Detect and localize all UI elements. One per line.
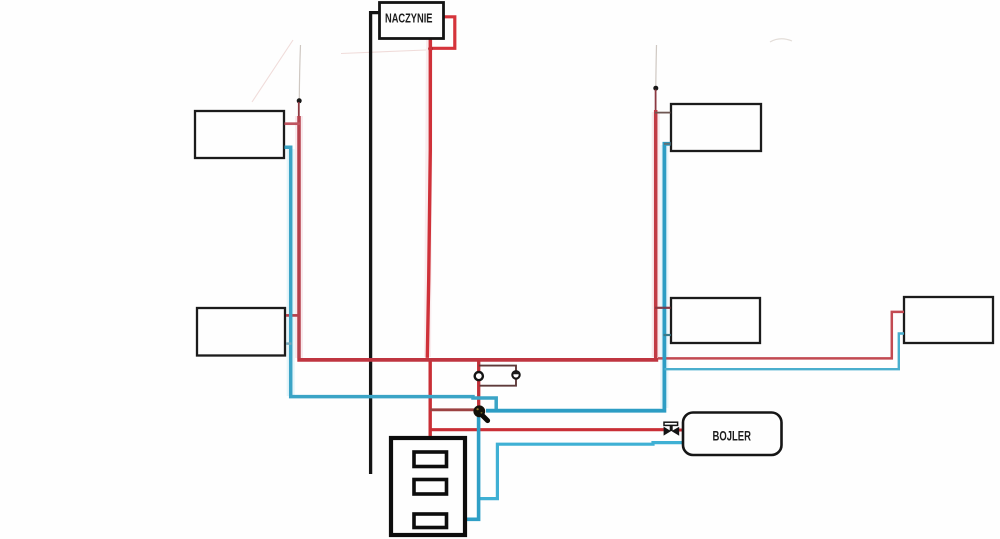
valve circle on bypass: [512, 371, 519, 378]
furnace door middle: [414, 480, 447, 495]
blue stub to right-bottom radiator: [664, 334, 671, 336]
pump speckles: [477, 408, 479, 410]
junction blob naczynie loop: [428, 47, 433, 52]
faint pencil line above right vent dot: [655, 45, 658, 87]
pump body: [473, 405, 485, 417]
gray stub nub top-right radiator: [664, 143, 671, 145]
red riser left radiators: [297, 116, 301, 358]
faint pink ghost diagonal left: [252, 40, 293, 102]
bottom red supply to boiler valve: [430, 428, 664, 431]
halo glow blue riser right: [660, 145, 668, 408]
faint pencil line above left vent dot: [299, 45, 300, 99]
radiator right-bottom: [671, 298, 760, 343]
blue return left riser and run to pump: [285, 147, 497, 411]
valve circle on feed: [475, 372, 483, 380]
bypass valve dark cap: [512, 371, 519, 374]
crossing blend red-over-blue stub: [663, 307, 667, 309]
blue pump outlet down to furnace: [466, 414, 479, 519]
red stub valve to boiler: [679, 429, 683, 432]
radiator left-top: [195, 111, 284, 158]
blue stub to left-bottom radiator: [286, 342, 292, 345]
vent dot left riser: [297, 98, 302, 103]
red loop from NACZYNIE right side: [430, 17, 455, 49]
expansion vessel NACZYNIE: [380, 3, 444, 39]
red stub to left-bottom radiator: [286, 314, 300, 317]
halo glow red riser right: [652, 112, 660, 357]
red stub to right-top radiator: [655, 112, 671, 114]
faint pencil smudge top right: [770, 39, 792, 42]
radiator right-top: [671, 104, 761, 151]
red feed down to pump: [477, 360, 480, 406]
thin red feed to far-right radiator: [658, 312, 904, 359]
red stub junction to pump: [430, 408, 474, 411]
radiator far-right: [904, 297, 993, 343]
halo glow naczynie drop: [428, 40, 430, 357]
pump tail: [483, 416, 488, 421]
furnace door top: [414, 452, 447, 467]
svg-text:BOJLER: BOJLER: [713, 429, 752, 444]
blue return right riser to pump: [486, 144, 671, 411]
bypass loop thin maroon: [479, 366, 516, 386]
red stub to left-top radiator: [285, 122, 301, 125]
red riser right radiators: [654, 110, 658, 358]
radiator left-bottom: [197, 308, 285, 356]
svg-text:NACZYNIE: NACZYNIE: [385, 10, 433, 25]
boiler valve bowtie: [664, 422, 680, 436]
chimney line (long black vertical): [371, 13, 380, 474]
thin vent pipe left: [298, 102, 300, 119]
faint pink ghost horizontal center: [341, 50, 426, 54]
red stub to right-bottom radiator: [655, 307, 671, 309]
red supply lower vertical to furnace: [429, 358, 432, 436]
halo glow red riser left: [295, 116, 303, 358]
furnace box: [391, 438, 465, 535]
blue return boiler to furnace: [479, 443, 683, 499]
thin vent pipe right: [655, 90, 657, 111]
furnace door bottom: [414, 514, 447, 528]
main red supply horizontal: [297, 358, 658, 362]
thin blue return from far-right radiator: [664, 334, 904, 370]
halo glow blue riser left: [287, 149, 295, 396]
red supply drop from NACZYNIE: [427, 39, 430, 358]
vent dot right riser: [653, 86, 658, 91]
boiler BOJLER: [683, 413, 782, 456]
